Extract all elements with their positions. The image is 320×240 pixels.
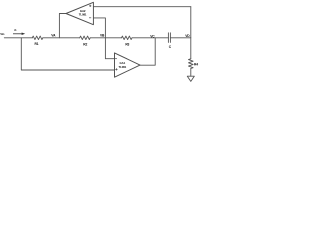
ground <box>187 76 194 81</box>
wire U1 inverting input right then down through node VB to U2 inverting input <box>93 18 114 59</box>
capacitor C <box>168 33 170 43</box>
svg-text:TL081: TL081 <box>79 13 87 17</box>
wire node VB segment R2 to R3 <box>90 37 121 39</box>
plus sign U1 non-inverting input <box>89 5 91 7</box>
resistor R4 <box>189 59 194 69</box>
wire node VA segment R1 to R2 <box>43 37 80 39</box>
svg-text:R3: R3 <box>125 43 129 47</box>
current arrow i1 <box>13 33 25 36</box>
svg-text:TL081: TL081 <box>118 65 126 69</box>
wire from node VA up to U1 output <box>59 14 66 38</box>
resistor R1 <box>32 36 43 40</box>
minus sign U2 inverting input <box>115 58 117 60</box>
minus sign U1 inverting input <box>89 17 91 19</box>
resistor R2 <box>80 36 91 40</box>
svg-text:R4: R4 <box>194 62 198 66</box>
svg-text:Vin: Vin <box>0 32 4 36</box>
op-amp U1 GA2 TL081 pointing left <box>66 2 93 24</box>
wire R4 to ground <box>190 69 192 77</box>
resistor R3 <box>122 36 133 40</box>
plus sign U2 non-inverting input <box>115 68 117 70</box>
op-amp U2 GA1 TL081 pointing right <box>115 53 141 77</box>
wire left branch from Vin node down and along bottom to U2 + input <box>21 38 114 70</box>
svg-text:R1: R1 <box>35 42 39 46</box>
wire right vertical from top rail through VD node down to R4 <box>190 7 192 59</box>
wire U2 output right then up to node VC <box>140 38 155 65</box>
wire node VC segment R3 to C1 <box>132 37 168 39</box>
svg-text:R2: R2 <box>83 43 87 47</box>
wire U1 non-inverting input along top rail to VD corner <box>93 6 190 8</box>
wire node VD segment C1 to right corner <box>170 37 191 39</box>
wire main horizontal from Vin to R1 <box>4 37 32 39</box>
